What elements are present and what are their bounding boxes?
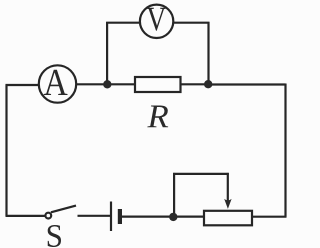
slider branch: left vertical from junction [173, 173, 175, 217]
node: bottom junction dot [169, 213, 177, 221]
wire ammeter to left junction [77, 83, 109, 85]
rheostat box [204, 211, 252, 226]
wire switch fixed contact to battery [78, 215, 111, 217]
voltmeter branch: top-right horizontal [173, 22, 210, 24]
label R (resistor) [147, 106, 168, 128]
voltmeter branch: right vertical [207, 22, 209, 84]
wire rheostat to bottom-right corner [252, 216, 287, 218]
slider branch: right vertical to arrow [227, 173, 229, 202]
label A (ammeter) [44, 70, 68, 95]
wire left vertical [5, 85, 7, 217]
battery long plate [110, 202, 112, 232]
wire bottom-left to switch [6, 215, 47, 217]
wire right junction to top-right corner [208, 83, 286, 85]
switch S pivot circle [45, 213, 51, 219]
label V (voltmeter) [147, 8, 166, 31]
label S (switch) [48, 225, 61, 247]
node: left junction dot [103, 80, 111, 88]
slider arrowhead [224, 199, 231, 209]
switch S blade [51, 206, 76, 213]
voltmeter branch: top-left horizontal [106, 22, 140, 24]
ammeter A circle [39, 65, 76, 102]
battery short thick plate [118, 209, 122, 224]
wire resistor to right junction [181, 83, 210, 85]
node: right junction dot [204, 80, 212, 88]
wire battery to rheostat [122, 216, 205, 218]
wire top-left to ammeter [6, 84, 39, 86]
wire left junction to resistor [107, 83, 135, 85]
resistor R box [135, 77, 181, 92]
voltmeter branch: left vertical [106, 22, 108, 85]
wire right vertical [284, 84, 286, 217]
voltmeter V circle [140, 5, 173, 38]
slider branch: top horizontal [173, 173, 229, 175]
